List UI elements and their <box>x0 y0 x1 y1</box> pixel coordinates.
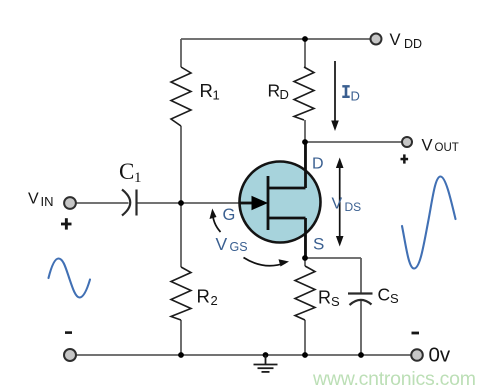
svg-text:V: V <box>390 31 401 49</box>
svg-text:0v: 0v <box>429 344 451 367</box>
svg-text:S: S <box>331 294 340 309</box>
svg-text:D: D <box>312 156 324 173</box>
svg-text:www.cntronics.com: www.cntronics.com <box>312 368 476 390</box>
svg-text:R: R <box>200 80 213 101</box>
svg-text:V: V <box>332 196 343 213</box>
svg-text:2: 2 <box>211 293 218 308</box>
svg-text:V: V <box>28 191 39 208</box>
svg-text:DD: DD <box>404 37 422 51</box>
svg-text:R: R <box>197 286 210 307</box>
svg-text:1: 1 <box>134 170 142 186</box>
svg-text:C: C <box>378 285 391 305</box>
svg-text:V: V <box>422 137 433 155</box>
svg-text:S: S <box>313 235 324 254</box>
svg-text:R: R <box>268 81 281 101</box>
svg-text:S: S <box>390 291 399 306</box>
svg-text:R: R <box>318 288 331 308</box>
svg-text:DS: DS <box>345 200 362 214</box>
svg-text:IN: IN <box>41 194 54 209</box>
svg-text:C: C <box>119 159 134 184</box>
svg-text:V: V <box>216 234 228 254</box>
svg-text:OUT: OUT <box>435 142 459 154</box>
svg-text:G: G <box>223 206 236 224</box>
svg-text:D: D <box>280 87 289 102</box>
svg-text:1: 1 <box>213 88 220 103</box>
svg-text:D: D <box>351 89 360 104</box>
svg-text:GS: GS <box>230 240 248 254</box>
